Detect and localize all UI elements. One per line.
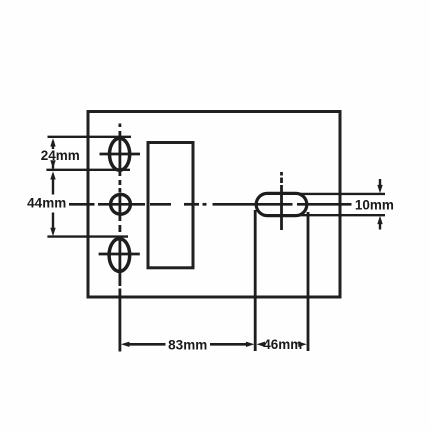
svg-text:10mm: 10mm [355,198,394,213]
dimension line 83mm left segment [127,343,166,346]
svg-text:83mm: 83mm [168,338,207,353]
extension line hole1 top [48,136,132,138]
arrow 24mm down [50,160,55,169]
plate outline [88,112,340,298]
hole H1 (top) [110,138,130,170]
arrow 46mm left [257,342,266,347]
svg-text:46mm: 46mm [263,337,302,352]
arrow 44mm down [50,228,55,237]
center rectangular slot [148,143,193,268]
extension line hole3 top [47,235,128,237]
dimension line 10mm bottom [379,223,381,230]
dimension line 10mm top [379,179,381,187]
extension vertical from obround left [254,210,257,351]
arrow 83mm left [121,342,129,347]
dimension line 44mm [52,178,54,229]
vertical centerline through right slot [280,172,283,230]
vertical centerline through left holes [119,124,122,352]
arrow 83mm right [246,342,255,347]
extension line slot bottom [300,214,385,216]
arrow 44mm up [50,171,55,179]
extension line hole1 bottom [46,169,130,171]
extension vertical from obround right [307,212,310,351]
hole H3 crosshair [99,253,140,256]
dimension line 24mm [52,141,54,169]
arrow 10mm down [377,185,382,193]
arrow 10mm up [377,216,382,224]
right obround slot [256,193,307,215]
svg-text:24mm: 24mm [41,148,80,163]
horizontal centerline [69,203,352,206]
hole H1 crosshair [100,153,141,156]
dimension line 83mm right segment [210,343,249,346]
hole H2 (middle) [111,194,131,214]
extension line slot top [300,193,385,195]
hole H3 (bottom) [109,239,130,272]
arrow 24mm up [50,138,55,146]
svg-text:44mm: 44mm [27,195,66,210]
arrow 46mm right [298,342,307,347]
